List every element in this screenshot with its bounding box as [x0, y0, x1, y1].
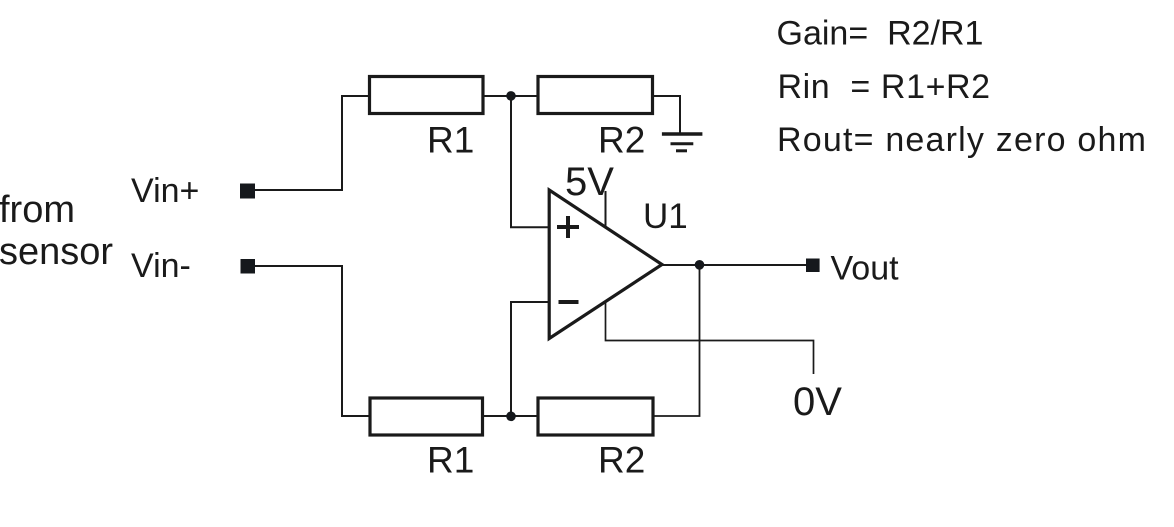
svg-text:from: from	[0, 189, 75, 231]
svg-text:Rin = R1+R2: Rin = R1+R2	[778, 68, 991, 106]
wire top R2 right to ground	[653, 96, 681, 133]
junction node output	[695, 260, 705, 270]
wire Vin- terminal to bottom R1 left	[255, 266, 370, 416]
svg-text:R1: R1	[427, 120, 474, 161]
ground	[662, 134, 703, 151]
wire Vin+ terminal to top R1 left	[255, 96, 369, 190]
svg-text:Rout= nearly zero ohm: Rout= nearly zero ohm	[777, 121, 1147, 159]
wire bottom R1 right to bottom R2 left (node B)	[483, 415, 539, 417]
svg-text:R1: R1	[427, 440, 474, 481]
svg-text:Vin-: Vin-	[131, 247, 191, 285]
wire node A down to op-amp + input	[511, 96, 548, 227]
junction node A (top)	[506, 91, 516, 101]
wire feedback: output node down to bottom R2 right	[653, 265, 700, 416]
wire node B up to op-amp - input	[511, 302, 548, 416]
terminal square Vin+	[240, 184, 255, 199]
op-amp 0V supply pin wire	[606, 302, 814, 374]
svg-text:Gain= R2/R1: Gain= R2/R1	[777, 15, 984, 53]
svg-text:R2: R2	[598, 120, 645, 161]
svg-text:Vin+: Vin+	[131, 172, 199, 210]
op-amp 5V supply pin	[605, 191, 607, 228]
resistor R2 top	[538, 77, 653, 114]
resistor R1 bottom	[370, 398, 483, 435]
wire op-amp output to Vout terminal	[662, 264, 806, 266]
svg-text:R2: R2	[598, 440, 645, 481]
svg-text:5V: 5V	[565, 160, 614, 204]
terminal square Vout	[806, 259, 820, 273]
op-amp - input symbol	[559, 300, 579, 304]
svg-text:U1: U1	[643, 197, 688, 236]
svg-text:0V: 0V	[793, 380, 842, 424]
terminal square Vin-	[241, 259, 256, 274]
svg-text:Vout: Vout	[831, 250, 900, 288]
op-amp U1 triangle	[549, 190, 662, 339]
resistor R1 top	[370, 77, 484, 114]
op-amp + input symbol	[557, 216, 579, 238]
svg-text:sensor: sensor	[0, 231, 113, 273]
junction node B (bottom)	[506, 412, 516, 422]
wire top R1 right to top R2 left (node A)	[483, 95, 538, 97]
resistor R2 bottom	[538, 398, 653, 435]
